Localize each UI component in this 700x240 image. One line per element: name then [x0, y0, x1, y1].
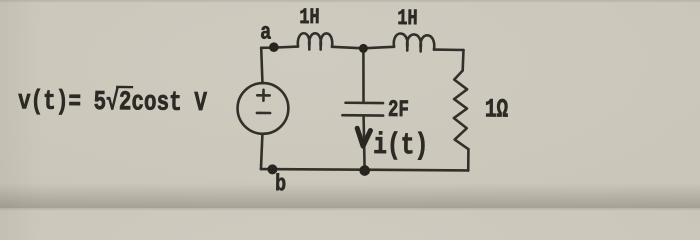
voltage source V1 circle [237, 83, 288, 134]
wire left branch upper vertical [261, 48, 263, 83]
wire top-left horizontal (node a to L1) [261, 46, 298, 48]
svg-text:i(t): i(t) [373, 129, 428, 163]
wire left branch lower vertical [261, 134, 263, 169]
wire middle branch upper vertical [363, 48, 364, 101]
bottom junction dot [359, 165, 370, 176]
radical overbar of sqrt(2) [116, 86, 133, 88]
svg-text:b: b [275, 172, 286, 197]
wire right branch lower vertical [467, 149, 470, 170]
inductor L2 (1H) coil [394, 33, 435, 51]
wire top junction to L2 [363, 47, 394, 49]
svg-text:2F: 2F [388, 98, 409, 124]
svg-text:1H: 1H [299, 5, 320, 30]
voltage source plus sign [257, 90, 269, 101]
wire right branch upper vertical [461, 50, 464, 71]
resistor R1 (1 ohm) zigzag [454, 70, 469, 149]
svg-text:a: a [260, 21, 272, 46]
wire between L1 and top junction [332, 47, 363, 48]
svg-text:1H: 1H [397, 6, 418, 31]
svg-text:1Ω: 1Ω [485, 95, 509, 125]
node b junction dot [267, 164, 277, 174]
wire middle branch lower vertical [363, 117, 365, 171]
capacitor C1 (2F) bottom plate [342, 114, 383, 117]
capacitor C1 (2F) top plate [346, 101, 383, 104]
inductor L1 (1H) coil [298, 33, 333, 49]
current arrow i(t) arrowhead [357, 128, 370, 146]
wire bottom horizontal [261, 169, 468, 171]
voltage source minus sign [257, 112, 270, 115]
top junction dot [359, 44, 368, 53]
node a junction dot [269, 42, 279, 52]
wire L2 to top-right corner [434, 48, 464, 51]
svg-text:v(t)= 5√2cost V: v(t)= 5√2cost V [18, 86, 208, 119]
